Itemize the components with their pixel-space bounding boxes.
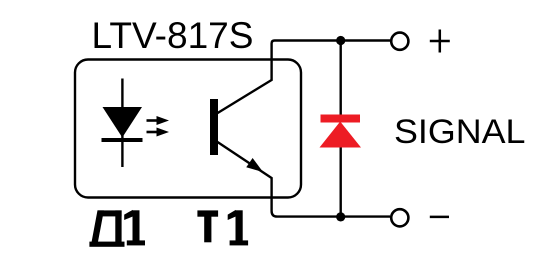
svg-text:SIGNAL: SIGNAL <box>394 113 526 151</box>
svg-text:LTV-817S: LTV-817S <box>92 15 254 56</box>
